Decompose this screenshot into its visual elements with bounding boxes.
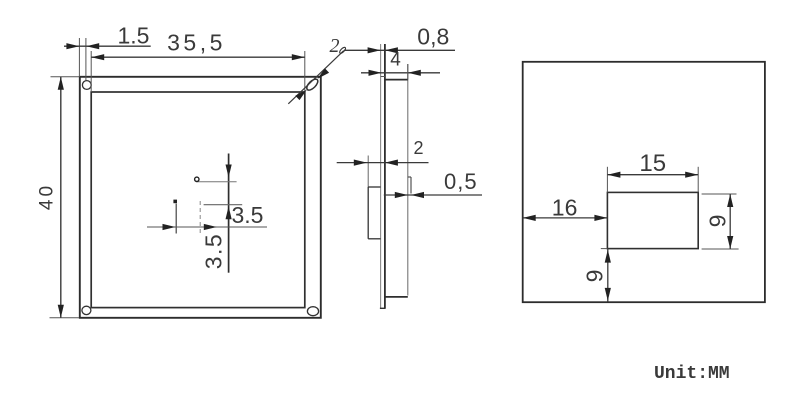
connector protrusion ext line up bbox=[367, 156, 369, 188]
svg-text:3.5: 3.5 bbox=[201, 233, 227, 269]
extension line outer-left edge up bbox=[78, 38, 80, 77]
pcb plate right face bbox=[384, 44, 386, 308]
arrow 9 right up bbox=[727, 194, 733, 207]
arrow 35,5 right bbox=[292, 54, 305, 60]
dimension 1.5 line bbox=[64, 45, 151, 47]
arrow 1.5 left bbox=[66, 43, 79, 49]
hole top-left bbox=[82, 81, 91, 90]
center up arrow bbox=[226, 206, 232, 219]
arrow 16 left bbox=[523, 215, 536, 221]
dimension 35,5 line bbox=[91, 56, 305, 58]
svg-text:0,5: 0,5 bbox=[444, 169, 478, 194]
center arrow B right bbox=[204, 224, 217, 230]
extension line hole centerline up bbox=[85, 38, 87, 81]
arrow 15 right bbox=[685, 172, 698, 178]
center vertical line bbox=[228, 154, 230, 273]
connector protrusion left face bbox=[367, 187, 369, 239]
leader arrow lower pointing up-right bbox=[295, 90, 307, 101]
arrow 0,5 right bbox=[411, 192, 424, 198]
pcb plate left face bbox=[380, 44, 382, 308]
arrow 40 up bbox=[58, 77, 64, 90]
dimension 9 right line bbox=[729, 194, 731, 249]
ceramic bottom edge bbox=[385, 296, 408, 298]
arrow 9 bottom up bbox=[605, 250, 611, 263]
pcb plate top cap bbox=[381, 76, 385, 78]
dimension 2 line bbox=[337, 162, 429, 164]
pcb plate bottom cap bbox=[380, 307, 386, 309]
arrow 0,8 left bbox=[368, 47, 381, 53]
extension line inner-right edge up bbox=[304, 51, 306, 92]
extension line 9 right bottom bbox=[702, 248, 739, 250]
arrow 9 bottom down bbox=[605, 288, 611, 301]
outer square of front view bbox=[80, 77, 321, 318]
back view square bbox=[523, 62, 765, 302]
arrow 0,5 left bbox=[395, 192, 408, 198]
hole leader diagonal line bbox=[288, 51, 344, 104]
svg-text:0,8: 0,8 bbox=[417, 24, 449, 50]
connector protrusion top edge bbox=[368, 186, 380, 188]
svg-text:9: 9 bbox=[582, 270, 608, 283]
center arrow A right bbox=[163, 224, 176, 230]
dashed light vertical line bbox=[199, 201, 201, 234]
svg-text:3.5: 3.5 bbox=[232, 202, 264, 228]
hole top-right (slanted) bbox=[305, 77, 320, 92]
ceramic right face bbox=[407, 64, 409, 296]
center down arrow bbox=[226, 165, 232, 178]
arrow 4 left bbox=[369, 70, 382, 76]
dimension 16 line bbox=[523, 217, 608, 219]
dimension 0,5 line bbox=[384, 194, 482, 196]
tiny circle mark bbox=[195, 177, 199, 181]
svg-text:4: 4 bbox=[390, 50, 401, 71]
svg-text:16: 16 bbox=[552, 194, 578, 220]
antenna pad rectangle bbox=[607, 192, 698, 248]
center horizontal line lower bbox=[204, 204, 243, 206]
extension line 9 right top bbox=[702, 193, 737, 195]
svg-text:Unit:MM: Unit:MM bbox=[654, 364, 730, 384]
extension line 40 bottom bbox=[50, 317, 80, 319]
arrow 4 right bbox=[408, 70, 421, 76]
extension line 15 right bbox=[697, 167, 699, 193]
dimension 15 line bbox=[607, 174, 698, 176]
dimension 0,8 line bbox=[344, 49, 455, 51]
connector protrusion bottom edge bbox=[368, 238, 380, 240]
svg-text:2: 2 bbox=[330, 35, 340, 57]
arrow 40 down bbox=[58, 305, 64, 318]
extension line 15 left bbox=[606, 167, 608, 193]
inner square of front view bbox=[91, 92, 305, 308]
svg-text:35,5: 35,5 bbox=[167, 30, 226, 56]
dimension 9 bottom line bbox=[607, 249, 609, 302]
stub 0.5 right face bbox=[410, 177, 412, 194]
hole bottom-right bbox=[307, 307, 318, 316]
dimension 4 line bbox=[361, 72, 440, 74]
tiny slanted ellipse on leader bbox=[339, 46, 347, 54]
arrow 9 right down bbox=[727, 236, 733, 249]
short vertical line left bbox=[175, 204, 177, 234]
arrow 0,8 right bbox=[385, 47, 398, 53]
arrow 2 right bbox=[385, 160, 398, 166]
center dim line horizontal bbox=[147, 226, 267, 228]
ceramic top edge bbox=[385, 79, 408, 81]
leader arrow upper pointing down-left bbox=[318, 68, 330, 79]
arrow 1.5 right bbox=[86, 43, 99, 49]
svg-text:1.5: 1.5 bbox=[118, 23, 150, 49]
svg-text:9: 9 bbox=[705, 215, 731, 228]
dimension 40 line bbox=[60, 77, 62, 318]
center horizontal line upper bbox=[197, 181, 237, 183]
svg-text:15: 15 bbox=[639, 150, 666, 177]
arrow 15 left bbox=[607, 172, 620, 178]
svg-text:40: 40 bbox=[37, 183, 58, 210]
extension line inner-left edge up bbox=[90, 51, 92, 92]
extension line 40 top bbox=[51, 76, 80, 78]
stub 0.5 top hook bbox=[408, 176, 411, 178]
tiny square mark bbox=[173, 200, 177, 204]
extension line 9 bottom bbox=[601, 248, 608, 250]
arrow 2 left bbox=[354, 160, 367, 166]
extension line 4 right bbox=[407, 64, 409, 80]
arrow 16 right bbox=[594, 215, 607, 221]
hole bottom-left bbox=[82, 306, 91, 314]
arrow 35,5 left bbox=[91, 54, 104, 60]
svg-text:2: 2 bbox=[413, 138, 423, 158]
